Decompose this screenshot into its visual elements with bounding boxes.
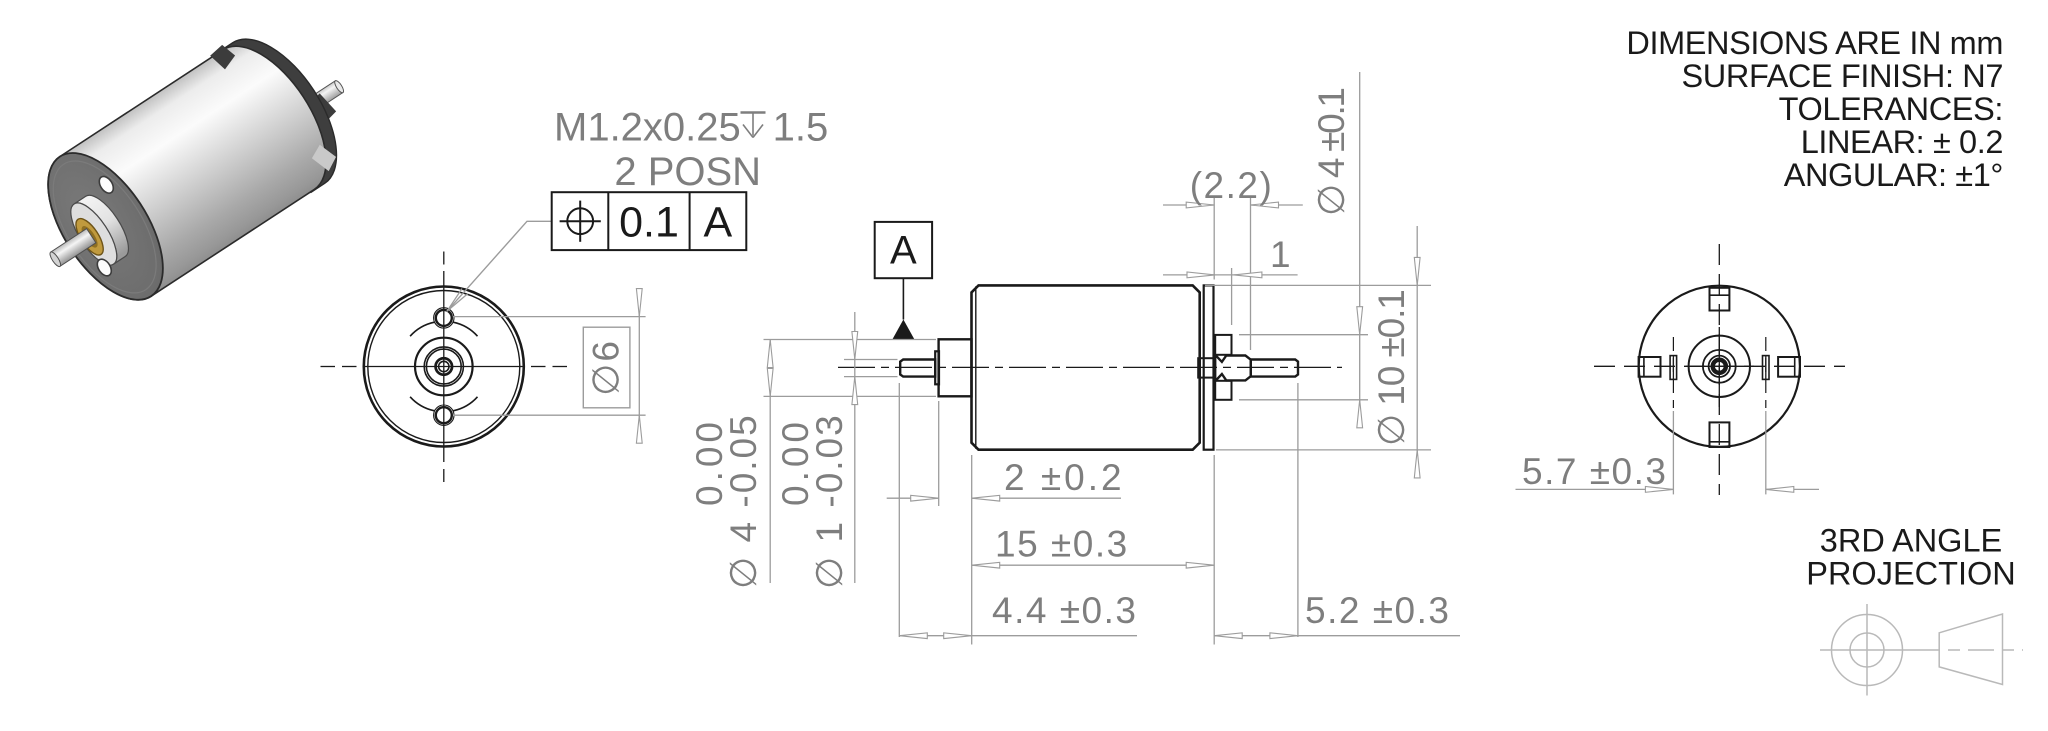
- svg-text:∅ 10 ±0.1: ∅ 10 ±0.1: [1371, 290, 1412, 446]
- rear shaft end: [1713, 360, 1726, 373]
- svg-text:ANGULAR: ±1°: ANGULAR: ±1°: [1784, 157, 2003, 193]
- front bearing boss: [939, 339, 972, 396]
- rear boss circle: [1689, 336, 1750, 397]
- front shaft: [900, 360, 935, 377]
- extension lines below side view: [899, 383, 1298, 645]
- bearing circles: [424, 347, 463, 386]
- end cap band: [1204, 285, 1214, 449]
- dimension diam 4 +/-0.1 rear hub: [1239, 72, 1368, 428]
- svg-text:2 POSN: 2 POSN: [614, 150, 761, 194]
- dimension 1 tab width: [1163, 234, 1298, 325]
- svg-text:LINEAR: ± 0.2: LINEAR: ± 0.2: [1801, 124, 2003, 160]
- threaded hole at y=415.2: [436, 407, 452, 423]
- dimension diam 4 boss: [689, 340, 936, 590]
- rear tab right: [1778, 357, 1800, 377]
- third angle projection symbol: [1820, 604, 2023, 696]
- svg-text:5.2 ±0.3: 5.2 ±0.3: [1305, 590, 1450, 631]
- svg-text:∅6: ∅6: [586, 339, 627, 396]
- rear shaft: [1251, 360, 1298, 377]
- dimension 2 +/-0.2: [887, 457, 1125, 501]
- svg-text:5.7 ±0.3: 5.7 ±0.3: [1522, 451, 1667, 492]
- svg-text:0.00: 0.00: [775, 418, 816, 506]
- svg-text:2 ±0.2: 2 ±0.2: [1004, 457, 1125, 498]
- brush slot left: [1670, 356, 1677, 380]
- svg-text:0.00: 0.00: [689, 418, 730, 506]
- motor body: [972, 285, 1200, 449]
- svg-text:4.4 ±0.3: 4.4 ±0.3: [992, 590, 1137, 631]
- rear outer circle: [1639, 286, 1800, 447]
- dimension diam 10 +/-0.1 body: [1205, 226, 1431, 478]
- svg-text:PROJECTION: PROJECTION: [1806, 556, 2015, 592]
- dimension 5.7 +/-0.3: [1516, 411, 1820, 494]
- svg-text:A: A: [703, 198, 732, 246]
- front view centerlines: [443, 252, 445, 265]
- feature control frame: [552, 192, 747, 250]
- bearing ring bar: [935, 351, 939, 384]
- dimension diam 1 shaft: [775, 312, 898, 589]
- svg-text:SURFACE FINISH: N7: SURFACE FINISH: N7: [1682, 58, 2003, 94]
- drawing notes block: [1626, 25, 2003, 193]
- brush slot right: [1763, 356, 1770, 380]
- rear view geometry: [1594, 244, 1845, 495]
- svg-text:1: 1: [1270, 234, 1291, 275]
- rear tab top: [1215, 335, 1231, 355]
- svg-text:0.1: 0.1: [619, 198, 679, 246]
- svg-text:M1.2x0.25: M1.2x0.25: [554, 106, 741, 150]
- svg-text:1.5: 1.5: [773, 106, 829, 150]
- dimension 4.4 +/-0.3: [899, 590, 1137, 639]
- svg-text:A: A: [890, 229, 917, 273]
- front view outer rim: [364, 287, 524, 447]
- dimension 15 +/-0.3: [972, 524, 1214, 569]
- face groove arcs: [410, 322, 434, 336]
- thread callout M1.2x0.25 depth 1.5, 2 POSN: [554, 106, 828, 194]
- rear collar: [1198, 358, 1215, 377]
- svg-text:∅ 4 ±0.1: ∅ 4 ±0.1: [1311, 89, 1352, 216]
- dimension (2.2) reference: [1163, 165, 1303, 350]
- svg-text:(2.2): (2.2): [1190, 165, 1274, 206]
- 3D isometric motor render: [5, 2, 382, 331]
- svg-text:DIMENSIONS ARE IN mm: DIMENSIONS ARE IN mm: [1626, 25, 2003, 61]
- front view: [321, 252, 568, 483]
- svg-text:15 ±0.3: 15 ±0.3: [995, 524, 1129, 565]
- feature control frame leader: [447, 221, 552, 311]
- datum feature A: [875, 222, 932, 339]
- rear tab bottom: [1215, 381, 1231, 400]
- svg-text:3RD ANGLE: 3RD ANGLE: [1820, 523, 2002, 559]
- rear tab bottom: [1710, 422, 1730, 447]
- rear hub: [1215, 355, 1251, 381]
- center shaft hole: [437, 360, 451, 374]
- rear tab top: [1710, 288, 1730, 311]
- side view geometry: [838, 285, 1342, 449]
- threaded hole at y=317.9: [436, 310, 452, 326]
- rear tab left: [1639, 357, 1661, 377]
- dimension 5.2 +/-0.3: [1214, 590, 1460, 639]
- cap seam line: [975, 286, 977, 448]
- svg-text:TOLERANCES:: TOLERANCES:: [1779, 91, 2003, 127]
- dimension diam 6 bolt circle: [454, 289, 646, 444]
- front boss circle: [415, 338, 473, 396]
- third angle projection label: [1806, 523, 2015, 592]
- rear view crosshairs: [1686, 365, 1754, 367]
- face screw holes: [96, 174, 116, 196]
- side view axis centerline: [838, 366, 1342, 368]
